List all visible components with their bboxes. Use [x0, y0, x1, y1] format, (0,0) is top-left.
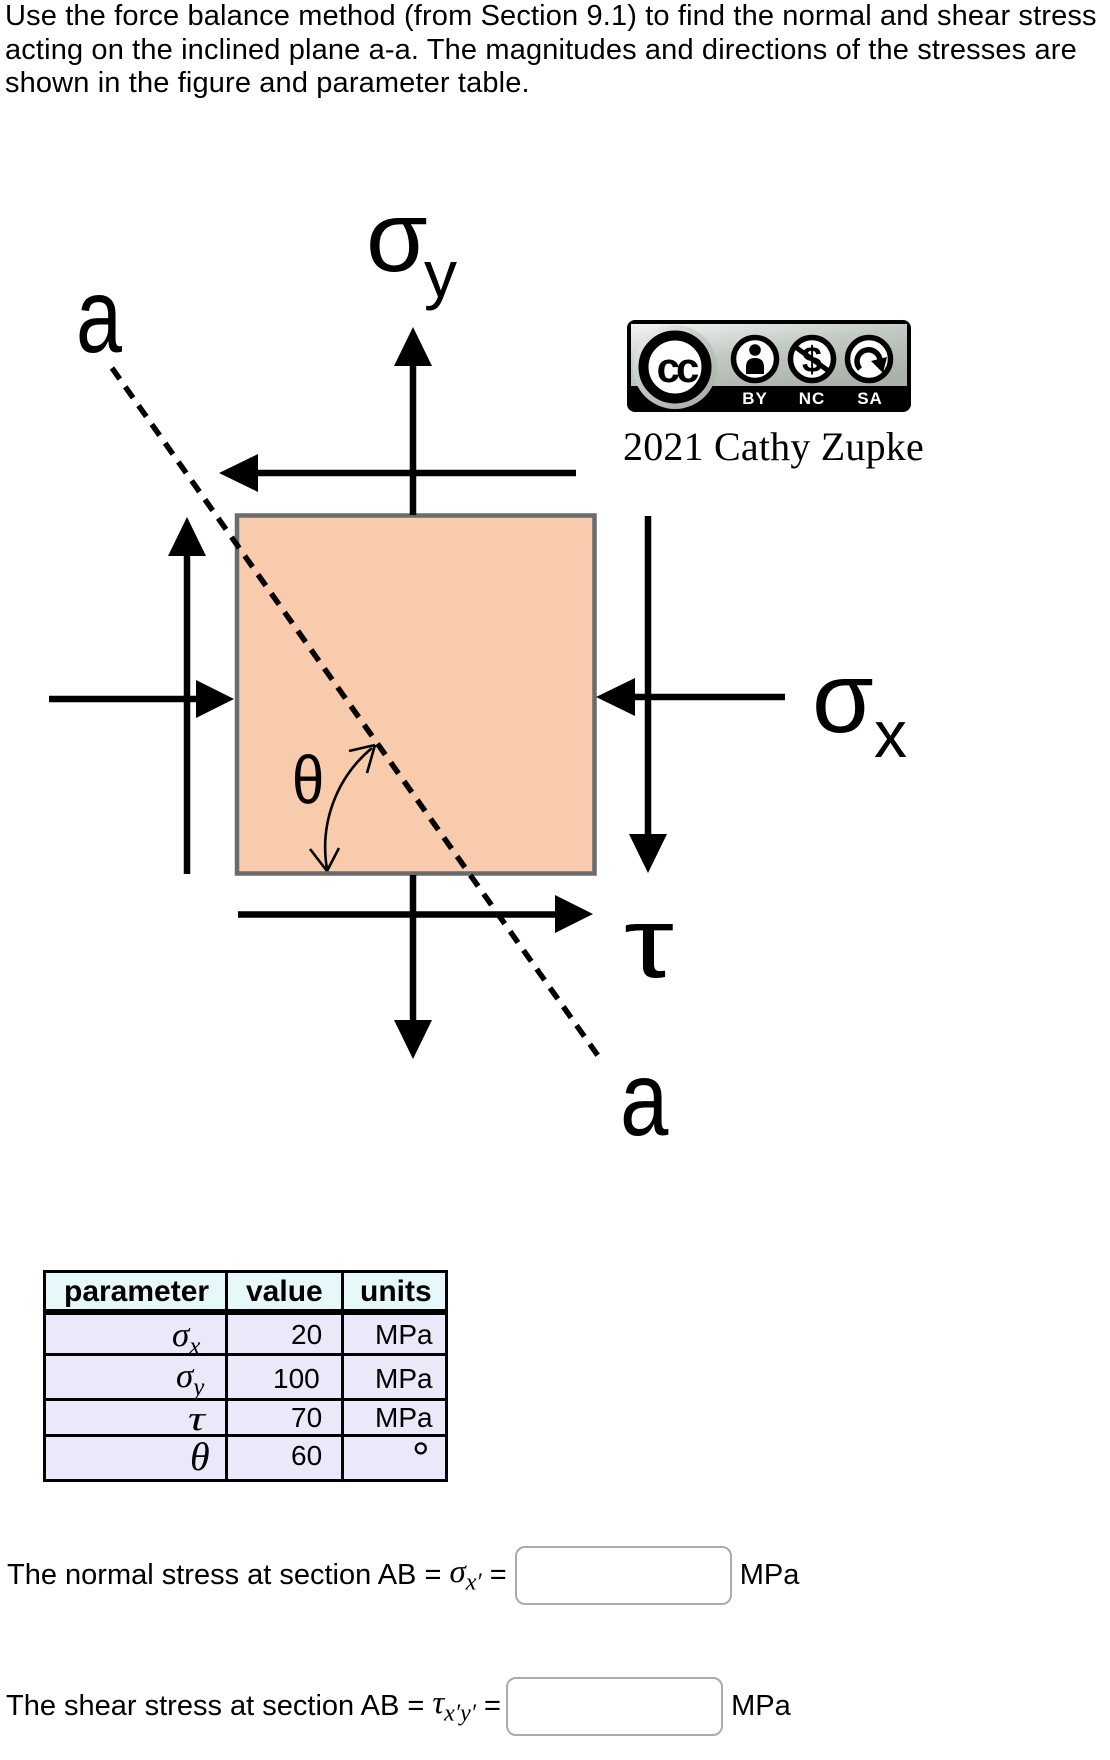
svg-text:NC: NC	[799, 389, 826, 408]
problem statement paragraph	[5, 0, 1097, 101]
CC logo circle	[633, 325, 717, 409]
answer line 2	[7, 1677, 791, 1736]
top shear arrow (pointing left)	[219, 454, 576, 492]
bottom sigma-y arrow (pointing down)	[394, 875, 432, 1059]
CC BY-NC-SA badge	[627, 320, 911, 412]
svg-text:y: y	[424, 237, 457, 311]
svg-text:a: a	[76, 257, 122, 375]
svg-text:x: x	[874, 697, 907, 771]
svg-text:τ: τ	[624, 887, 674, 999]
right shear arrow (pointing down)	[629, 516, 667, 873]
svg-text:σ: σ	[366, 190, 428, 293]
left shear arrow (pointing up)	[168, 517, 206, 874]
NC no-dollar circle	[791, 338, 834, 381]
svg-text:σ: σ	[812, 642, 874, 754]
SA share-alike circle	[848, 338, 891, 381]
right sigma-x arrow (pointing left into square)	[596, 678, 785, 716]
sigma-y arrow (top, pointing up)	[394, 327, 432, 515]
svg-text:BY: BY	[742, 389, 768, 408]
dashed section line a-a	[112, 368, 601, 1060]
svg-text:SA: SA	[857, 389, 883, 408]
svg-text:cc: cc	[657, 344, 699, 391]
svg-text:θ: θ	[292, 743, 324, 818]
bottom shear arrow (pointing right)	[238, 895, 593, 933]
svg-text:2021 Cathy Zupke: 2021 Cathy Zupke	[623, 424, 924, 469]
BY person circle	[734, 338, 777, 381]
answer line 1	[7, 1546, 799, 1605]
square stress element	[237, 516, 595, 874]
parameter table	[43, 1270, 448, 1482]
left sigma-x arrow (pointing right into square)	[49, 680, 234, 718]
stress element figure	[0, 190, 1110, 1150]
svg-text:a: a	[620, 1039, 668, 1150]
theta angle arc with arrowheads	[310, 745, 375, 871]
